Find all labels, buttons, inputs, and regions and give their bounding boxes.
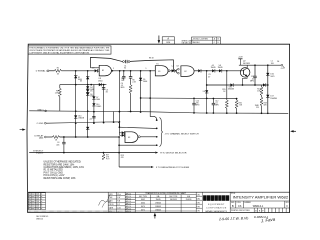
svg-text:J TO CHANNEL SELECT SWITCH: J TO CHANNEL SELECT SWITCH xyxy=(165,132,199,135)
resistor R18 xyxy=(261,95,263,97)
svg-text:i: i xyxy=(216,196,217,201)
svg-text:E2: E2 xyxy=(185,71,187,73)
gate E1A input bubble xyxy=(97,70,99,72)
svg-text:R1 IS METALIZED: R1 IS METALIZED xyxy=(44,169,64,172)
diode D15b on C9 vertical xyxy=(205,90,208,93)
diode D16 xyxy=(266,73,269,76)
gate E2 input bubbles xyxy=(178,68,180,70)
line4 from input4 vertical xyxy=(119,144,157,146)
svg-text:H TO DEVICE SELECTOR: H TO DEVICE SELECTOR xyxy=(160,153,187,155)
vertical string x87.7 xyxy=(87,71,89,137)
svg-text:RESISTORS ARE COMP, 10%: RESISTORS ARE COMP, 10% xyxy=(44,177,76,180)
svg-text:470: 470 xyxy=(121,157,124,159)
svg-text:F TO BRIGHTNESS POT SLIDER: F TO BRIGHTNESS POT SLIDER xyxy=(156,167,190,169)
line3 node xyxy=(156,136,158,138)
gate E3 output wire line3 xyxy=(140,136,156,138)
fold mark arrow bottom edge xyxy=(154,213,157,219)
stub bus wire y86.5 xyxy=(60,84,107,86)
lower gnd wire xyxy=(29,152,155,154)
svg-text:NUMBER: NUMBER xyxy=(244,202,251,204)
svg-text:2-66: 2-66 xyxy=(36,194,39,196)
vertical from output wire to bias line xyxy=(254,65,256,76)
node lower wire x63.9 xyxy=(63,152,65,154)
fold mark arrow top edge xyxy=(158,36,161,44)
svg-text:ENABLE: ENABLE xyxy=(36,152,44,155)
diode D10 xyxy=(92,103,95,106)
svg-text:D662: D662 xyxy=(141,199,145,201)
parts table left xyxy=(108,192,125,212)
svg-text:mod: mod xyxy=(31,198,34,200)
device selector arrow xyxy=(155,152,158,154)
svg-text:CS: CS xyxy=(238,205,242,208)
resistor R15 vertical from main wire xyxy=(226,71,228,100)
node x119.4 rail crossing xyxy=(119,111,121,113)
GND input terminal xyxy=(45,110,47,112)
node lower wire x103 xyxy=(103,152,105,154)
svg-text:D5: D5 xyxy=(90,91,92,93)
vertical x113.6 from rail xyxy=(113,112,115,122)
svg-text:DEC3639: DEC3639 xyxy=(170,199,177,201)
capacitor C3 xyxy=(102,88,105,90)
svg-text:SIZE: SIZE xyxy=(231,202,234,204)
svg-text:D2: D2 xyxy=(78,77,80,79)
svg-text:Q2: Q2 xyxy=(243,61,246,63)
node input3 x113.6 xyxy=(113,121,115,123)
top strip box A divider xyxy=(162,39,174,41)
svg-text:D7: D7 xyxy=(96,97,98,99)
node line2 corner xyxy=(119,126,121,128)
output terminal xyxy=(281,64,283,66)
node emitter junction xyxy=(242,84,244,86)
vertical x119 to brightness line xyxy=(118,137,120,167)
AND gate E2 xyxy=(181,66,194,77)
svg-text:POT: POT xyxy=(106,158,109,160)
node gate E1A output xyxy=(112,70,114,72)
node x87 input4 xyxy=(87,136,89,138)
border frame xyxy=(27,44,290,212)
svg-text:2-66: 2-66 xyxy=(36,206,39,208)
bias diode string D5 xyxy=(86,90,89,93)
vertical x130.6 with cap C2 and resistor R6 xyxy=(130,71,132,77)
potentiometer R14 xyxy=(103,153,105,155)
diode D10a xyxy=(74,115,77,118)
resistor R2 xyxy=(53,136,60,139)
parts column small xyxy=(125,195,135,210)
svg-text:D670: D670 xyxy=(141,206,145,208)
svg-text:REV: REV xyxy=(286,202,289,204)
svg-text:CAPACITORS ARE MMFD, 100V, 10%: CAPACITORS ARE MMFD, 100V, 10% xyxy=(44,166,84,169)
diode D13 xyxy=(212,69,215,72)
svg-text:PROD: PROD xyxy=(109,204,115,206)
diode D9b xyxy=(139,78,142,81)
svg-text:C GND: C GND xyxy=(37,123,44,125)
diode D18 on bias wire xyxy=(263,83,266,86)
node gate1 out x119.7 xyxy=(119,70,121,72)
svg-text:2-66: 2-66 xyxy=(36,208,39,210)
node x75 input4 xyxy=(75,136,77,138)
transistor Q2 xyxy=(240,65,250,77)
svg-text:TRANSISTOR & DIODE CONVERSION: TRANSISTOR & DIODE CONVERSION CHART xyxy=(145,192,187,195)
bias wire from C9 node to right vertical xyxy=(207,84,268,86)
svg-text:82: 82 xyxy=(106,91,108,93)
svg-text:RESISTORS ARE 1/4W; 10%: RESISTORS ARE 1/4W; 10% xyxy=(44,163,75,166)
svg-text:100: 100 xyxy=(271,63,274,65)
wire input 1 xyxy=(49,70,55,72)
wire input 1 to gate xyxy=(61,70,94,72)
diode D11 on stub bus xyxy=(99,83,102,86)
gate E3 input diodes xyxy=(122,131,125,134)
node x206.7 xyxy=(206,70,208,72)
svg-text:.005: .005 xyxy=(56,144,59,146)
input 4 wire xyxy=(47,136,53,138)
svg-text:E1: E1 xyxy=(158,71,160,73)
svg-text:D6: D6 xyxy=(90,94,92,96)
gate E2 output wire xyxy=(194,70,198,72)
svg-text:mod: mod xyxy=(31,203,34,205)
svg-text:E3: E3 xyxy=(128,137,130,139)
svg-text:2-66: 2-66 xyxy=(117,207,120,209)
svg-text:GND C: GND C xyxy=(37,109,44,111)
svg-text:47: 47 xyxy=(208,76,210,78)
diode D11b xyxy=(86,127,89,130)
node R16 top xyxy=(236,98,238,100)
node x87 rail xyxy=(87,110,89,112)
svg-text:D664: D664 xyxy=(143,81,147,83)
bus wire y98 xyxy=(141,97,237,100)
node C6 tap xyxy=(123,70,125,72)
copyright notes box xyxy=(28,46,111,54)
capacitor C1 connector circle left xyxy=(123,61,125,63)
diode D14 xyxy=(219,69,222,72)
wire to bias node xyxy=(201,70,212,72)
node x119 line4 xyxy=(118,144,120,146)
svg-text:1-2: 1-2 xyxy=(172,66,174,68)
svg-text:DRB 110: DRB 110 xyxy=(36,218,43,220)
svg-text:-15V BLU +10V RED: -15V BLU +10V RED xyxy=(192,39,209,41)
svg-text:UNLESS OTHERWISE INDICATED:: UNLESS OTHERWISE INDICATED: xyxy=(44,161,82,164)
resistor R3 vertical xyxy=(59,85,61,89)
node output vertical top xyxy=(254,64,256,66)
svg-text:PRINTED CIRCUIT REV.: PRINTED CIRCUIT REV. xyxy=(231,210,251,212)
node x103 input3 xyxy=(103,122,105,124)
feedback into gate E1A upper input xyxy=(91,67,100,69)
line1 node xyxy=(156,119,158,121)
node bias at C11 xyxy=(254,84,256,86)
capacitor C12 xyxy=(212,99,214,104)
gate E1A output wire xyxy=(112,70,156,72)
svg-text:mod: mod xyxy=(31,206,34,208)
svg-text:D3: D3 xyxy=(80,81,82,83)
svg-text:2-66: 2-66 xyxy=(36,196,39,198)
input 4 wire cont xyxy=(60,136,120,138)
feedback wire right segment to gate2 output node xyxy=(130,60,173,70)
vertical x119.4 long drop xyxy=(118,71,120,136)
resistor R16 xyxy=(236,99,238,101)
svg-text:D7: D7 xyxy=(92,67,94,69)
capacitor C11 plates xyxy=(253,76,256,78)
svg-text:SCL: SCL xyxy=(109,211,112,213)
svg-text:mod: mod xyxy=(31,194,34,196)
wire diodes to base xyxy=(222,70,241,72)
svg-text:W682-0-1: W682-0-1 xyxy=(253,205,264,208)
input 4 terminal xyxy=(44,136,46,138)
svg-text:D664: D664 xyxy=(96,99,100,101)
node bus gate branch xyxy=(149,97,151,99)
line4 node xyxy=(156,144,158,146)
svg-text:COPYRIGHT 1966 BY DIGITAL EQUI: COPYRIGHT 1966 BY DIGITAL EQUIPMENT CORP… xyxy=(29,52,89,55)
svg-text:D SIGNAL J: D SIGNAL J xyxy=(36,70,47,73)
svg-text:J.W: J.W xyxy=(117,197,120,199)
ground rail xyxy=(29,111,288,114)
node x75 rail xyxy=(75,110,77,112)
diode D3 xyxy=(86,76,89,79)
input 3 wire xyxy=(46,122,120,127)
svg-text:B: B xyxy=(232,204,234,208)
NAND gate E1B xyxy=(155,66,168,76)
svg-text:2-66: 2-66 xyxy=(36,198,39,200)
node x130 rail xyxy=(130,111,132,113)
brace to channel select switch xyxy=(159,118,163,147)
DEC digital logo blocks xyxy=(203,195,229,201)
title band top rule xyxy=(28,191,289,193)
top strip box A xyxy=(162,37,174,44)
right vertical with diodes xyxy=(267,65,269,113)
svg-text:i: i xyxy=(208,196,209,201)
node x119 lower wire xyxy=(118,152,120,154)
NAND gate E1A xyxy=(99,65,111,76)
gate E1B output bubble xyxy=(168,70,170,72)
svg-text:1N645B: 1N645B xyxy=(78,117,84,119)
svg-text:3470: 3470 xyxy=(270,76,274,78)
node C9 bus crossing xyxy=(206,98,208,100)
svg-text:+C5: +C5 xyxy=(89,119,92,121)
svg-text:1N645B: 1N645B xyxy=(228,89,235,91)
node input wire x87.7 xyxy=(87,70,89,72)
svg-text:DEC3639: DEC3639 xyxy=(243,63,250,65)
vertical string x75.7 xyxy=(75,71,77,137)
svg-text:GND BLK: GND BLK xyxy=(192,42,200,44)
diode D7 on main wire xyxy=(95,69,98,72)
node input4 x63.9 xyxy=(63,136,65,138)
svg-text:(4B2): (4B2) xyxy=(39,138,44,140)
vertical x140.6 with diode D9b xyxy=(140,71,142,112)
svg-text:E Q U I P M E N T: E Q U I P M E N T xyxy=(208,204,225,206)
node bias right end xyxy=(267,84,269,86)
svg-text:D672: D672 xyxy=(141,209,145,211)
handwritten check marks in blank box xyxy=(99,195,110,206)
svg-text:2-8: 2-8 xyxy=(203,91,205,93)
svg-text:E1: E1 xyxy=(157,64,159,66)
fold mark arrow left edge xyxy=(20,128,26,130)
output wire top xyxy=(239,64,281,66)
C9 vertical from main wire to rail xyxy=(206,71,208,113)
svg-text:2-66: 2-66 xyxy=(36,201,39,203)
bias diode string D6 xyxy=(86,93,89,96)
node input4 x119 xyxy=(118,136,120,138)
svg-text:1N645: 1N645 xyxy=(96,106,101,108)
diode D7b on x93.9 xyxy=(92,96,95,99)
node stub right end xyxy=(103,84,105,86)
top strip power table dividers xyxy=(192,39,221,41)
svg-text:ON DEC 34: ON DEC 34 xyxy=(182,42,192,44)
transistor and diode conversion chart xyxy=(135,192,196,212)
node input3 at vertical xyxy=(119,121,121,123)
rail junction dots xyxy=(193,112,195,114)
node E2 input fan xyxy=(175,70,177,72)
svg-text:E1: E1 xyxy=(102,70,104,72)
node stub x87.7 xyxy=(87,84,89,86)
node bias left end xyxy=(206,84,208,86)
node stub x75.7 xyxy=(75,84,77,86)
emitter wire to bias line xyxy=(243,76,248,85)
gate E2 input stubs xyxy=(176,69,177,71)
svg-text:THIS SCHEMATIC IS FURNISHED ON: THIS SCHEMATIC IS FURNISHED ONLY FOR TES… xyxy=(29,47,109,50)
node bus left xyxy=(140,97,142,99)
bias diode string D4 xyxy=(86,86,89,89)
svg-text:W pt: W pt xyxy=(117,193,121,196)
wire between diodes xyxy=(215,70,219,72)
capacitor C5 xyxy=(92,116,95,118)
svg-text:mod: mod xyxy=(31,208,34,210)
svg-text:R1: R1 xyxy=(57,68,59,70)
node feedback lands on wire xyxy=(173,70,175,72)
node mid wire x130.6 xyxy=(130,70,132,72)
gate E3 output bubble xyxy=(138,136,140,138)
node x93 input3 xyxy=(93,122,95,124)
feedback wire top xyxy=(91,57,123,67)
node x93.9 rail crossing xyxy=(93,111,95,113)
capacitor C1 in feedback line xyxy=(125,60,127,63)
node right vertical top xyxy=(267,64,269,66)
NAND gate E3 xyxy=(125,132,138,143)
node mid wire x140.6 xyxy=(140,70,142,72)
fold mark arrow right edge xyxy=(290,130,296,132)
diode D2 xyxy=(74,76,77,79)
vertical string x93.9 xyxy=(93,85,95,124)
svg-text:CIRCUITS ARE PROPRIETARY IN NA: CIRCUITS ARE PROPRIETARY IN NATURE AND S… xyxy=(29,49,109,52)
node x140 rail xyxy=(140,111,142,113)
svg-text:MFD: MFD xyxy=(250,81,255,83)
svg-text:1N645: 1N645 xyxy=(156,199,161,201)
node x75 input3 xyxy=(75,122,77,124)
svg-text:C O R P O R A T I O N: C O R P O R A T I O N xyxy=(206,207,227,210)
svg-text:+10V: +10V xyxy=(238,57,243,59)
svg-text:DEC TYPE: DEC TYPE xyxy=(169,196,177,198)
line2 node xyxy=(156,128,158,130)
wire gate2 bubble to diode xyxy=(170,70,172,72)
svg-text:1N645B: 1N645B xyxy=(270,98,277,100)
vertical string x103.6 xyxy=(103,85,105,123)
svg-text:D10: D10 xyxy=(78,115,81,117)
capacitor C6 stub xyxy=(123,71,125,77)
line2 to brace xyxy=(119,127,156,128)
svg-text:82: 82 xyxy=(124,68,126,70)
svg-text:mod: mod xyxy=(31,196,34,198)
output arrow tick xyxy=(283,66,285,68)
svg-text:2N3639: 2N3639 xyxy=(186,199,192,201)
svg-text:3-8: 3-8 xyxy=(176,66,178,68)
svg-text:D664: D664 xyxy=(141,202,145,204)
svg-text:1N3606: 1N3606 xyxy=(155,202,161,204)
svg-text:DEC TYPE: DEC TYPE xyxy=(139,196,147,198)
svg-text:1N3653: 1N3653 xyxy=(155,209,161,211)
svg-text:CODE: CODE xyxy=(236,202,240,204)
revision table xyxy=(28,193,45,210)
svg-text:PIN 14 ON (L) +10V: PIN 14 ON (L) +10V xyxy=(44,175,65,177)
svg-text:INTENSITY AMPLIFIER W682: INTENSITY AMPLIFIER W682 xyxy=(233,195,289,200)
vertical x63.9 with capacitor C4 xyxy=(63,137,65,142)
svg-text:2-66: 2-66 xyxy=(36,203,39,205)
svg-text:D664: D664 xyxy=(98,80,102,82)
diode D9 xyxy=(172,69,175,72)
svg-text:mod: mod xyxy=(31,201,34,203)
title area frame lines xyxy=(230,192,289,212)
top strip power table xyxy=(192,37,221,44)
diode D12 xyxy=(198,69,201,72)
svg-text:D4: D4 xyxy=(277,61,279,63)
node R15 tap x226.8 xyxy=(226,70,228,72)
bottom edge tick marks xyxy=(29,211,135,213)
node gate2 branch x150.2 xyxy=(149,70,151,72)
svg-text:A: A xyxy=(167,37,169,41)
diode D17 xyxy=(266,95,269,98)
resistor R1 xyxy=(54,69,61,72)
svg-text:1N645: 1N645 xyxy=(211,67,216,69)
capacitor C1 connector circle right xyxy=(128,61,130,63)
svg-text:1N645: 1N645 xyxy=(218,67,223,69)
capacitor C10a xyxy=(193,98,195,103)
node stub x91 xyxy=(90,84,92,86)
svg-text:PIN 7 ON (L) GND: PIN 7 ON (L) GND xyxy=(44,172,64,174)
svg-text:1N3653: 1N3653 xyxy=(155,206,161,208)
+10V terminal xyxy=(238,59,242,65)
input 3 terminal xyxy=(44,122,46,124)
brightness pot wire xyxy=(119,166,151,168)
svg-text:D4: D4 xyxy=(90,87,92,89)
svg-text:35V: 35V xyxy=(256,107,259,109)
node C12 top xyxy=(213,98,215,100)
resistor R17 xyxy=(261,85,263,87)
svg-text:l: l xyxy=(227,196,228,201)
diode D15 on bias wire xyxy=(230,83,233,86)
node input wire x75.7 xyxy=(75,70,77,72)
gate2 branch vertical to line1 xyxy=(150,71,157,120)
node C10a top xyxy=(193,97,195,99)
input terminal D SIGNAL xyxy=(47,70,49,72)
narrow rows column xyxy=(196,192,202,212)
